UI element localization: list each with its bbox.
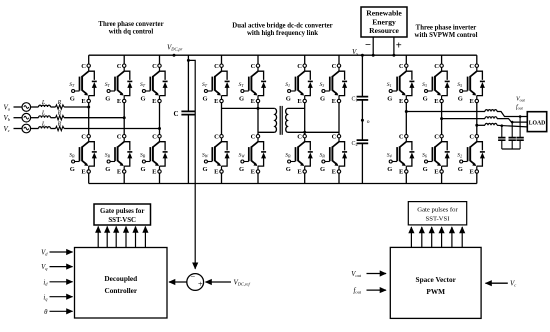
svg-text:o: o bbox=[367, 119, 370, 125]
svg-text:S1: S1 bbox=[285, 82, 290, 88]
svg-text:L: L bbox=[41, 111, 46, 117]
svg-text:Dual active bridge dc-dc conve: Dual active bridge dc-dc converter bbox=[232, 23, 332, 30]
svg-text:Controller: Controller bbox=[104, 286, 137, 295]
svg-text:LOAD: LOAD bbox=[529, 121, 546, 127]
svg-text:SW: SW bbox=[239, 153, 246, 159]
svg-text:S3: S3 bbox=[320, 82, 325, 88]
svg-text:Renewable: Renewable bbox=[366, 9, 402, 18]
svg-text:ST: ST bbox=[69, 82, 75, 88]
svg-text:SB: SB bbox=[320, 153, 326, 159]
svg-text:Resource: Resource bbox=[369, 26, 399, 35]
svg-text:L: L bbox=[41, 121, 46, 127]
svg-text:+: + bbox=[198, 279, 203, 288]
svg-text:S1: S1 bbox=[387, 82, 392, 88]
svg-text:Three phase converter: Three phase converter bbox=[98, 21, 163, 28]
svg-text:Vd: Vd bbox=[41, 250, 48, 257]
svg-text:PWM: PWM bbox=[426, 287, 445, 296]
svg-text:fout: fout bbox=[516, 104, 524, 111]
svg-text:S5: S5 bbox=[457, 82, 462, 88]
svg-text:C2: C2 bbox=[351, 141, 357, 147]
svg-text:ST: ST bbox=[140, 82, 146, 88]
svg-text:with SVPWM control: with SVPWM control bbox=[415, 32, 478, 39]
svg-text:SW: SW bbox=[202, 153, 209, 159]
svg-text:with dq control: with dq control bbox=[109, 29, 154, 36]
svg-text:ST: ST bbox=[105, 82, 111, 88]
svg-text:R: R bbox=[57, 121, 62, 127]
svg-text:with high frequency link: with high frequency link bbox=[247, 30, 318, 37]
svg-text:ST: ST bbox=[202, 82, 208, 88]
svg-text:L: L bbox=[41, 100, 46, 106]
svg-text:C1: C1 bbox=[351, 97, 357, 103]
svg-text:R: R bbox=[57, 100, 62, 106]
svg-text:SB: SB bbox=[285, 153, 291, 159]
svg-text:SB: SB bbox=[105, 153, 111, 159]
svg-text:SB: SB bbox=[69, 153, 75, 159]
svg-text:Vout: Vout bbox=[516, 97, 526, 103]
svg-text:S2: S2 bbox=[457, 153, 462, 159]
svg-text:Vq: Vq bbox=[41, 264, 48, 271]
svg-text:S3: S3 bbox=[422, 82, 427, 88]
svg-text:−: − bbox=[365, 40, 371, 51]
svg-text:fout: fout bbox=[353, 288, 361, 295]
svg-text:Vout: Vout bbox=[351, 271, 362, 278]
svg-text:Space Vector: Space Vector bbox=[416, 275, 457, 284]
svg-text:Gate pulses for: Gate pulses for bbox=[100, 208, 144, 215]
svg-text:ST: ST bbox=[239, 82, 245, 88]
svg-text:Decoupled: Decoupled bbox=[104, 274, 137, 283]
svg-text:SST-VSI: SST-VSI bbox=[426, 216, 450, 223]
svg-text:Gate pulses for: Gate pulses for bbox=[417, 206, 458, 213]
svg-text:Energy: Energy bbox=[372, 17, 396, 26]
svg-text:S6: S6 bbox=[422, 153, 427, 159]
svg-text:SB: SB bbox=[140, 153, 146, 159]
svg-text:C: C bbox=[173, 110, 178, 118]
svg-text:R: R bbox=[57, 111, 62, 117]
svg-text:S4: S4 bbox=[387, 153, 392, 159]
svg-text:+: + bbox=[396, 41, 402, 52]
svg-text:SST-VSC: SST-VSC bbox=[108, 217, 136, 224]
svg-text:Three phase inverter: Three phase inverter bbox=[416, 25, 477, 32]
svg-text:−: − bbox=[190, 272, 195, 282]
